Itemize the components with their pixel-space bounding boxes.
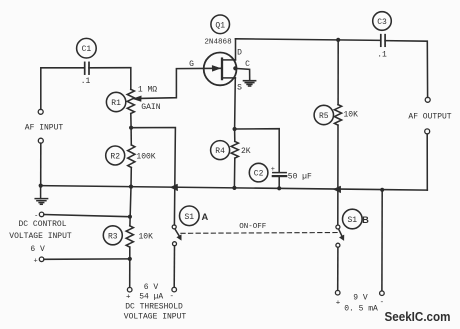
resistor R2 — [106, 145, 135, 168]
capacitor C2 — [249, 163, 286, 182]
terminal DC control plus — [39, 257, 44, 262]
svg-text:-: - — [34, 212, 38, 220]
wire node to R2 to bus — [130, 128, 132, 145]
svg-text:C3: C3 — [377, 18, 387, 27]
wire case to ground — [235, 68, 249, 80]
node S junction to R4 — [233, 127, 237, 131]
wire drain column up to top rail — [235, 39, 237, 60]
wire AF input bottom to bus — [40, 143, 42, 185]
terminal DC control minus — [39, 212, 44, 217]
ground (main) — [35, 186, 47, 205]
svg-text:C1: C1 — [82, 45, 92, 54]
wire C2 to bus — [278, 177, 280, 189]
terminal DC threshold minus — [172, 287, 177, 292]
wire node to S1A column — [131, 128, 175, 226]
resistor R4 — [211, 141, 239, 160]
node R4 bus — [232, 186, 236, 190]
junction arrow at bus S1B crossing — [334, 186, 341, 193]
wire bus to R3 — [130, 187, 131, 226]
wire node to C2 branch — [235, 129, 280, 172]
svg-text:+: + — [271, 166, 275, 174]
ground (case) — [244, 81, 256, 86]
node C case junction — [233, 66, 237, 70]
wire dashed on-off link — [181, 232, 337, 235]
svg-text:AF INPUT: AF INPUT — [25, 124, 64, 133]
svg-text:+: + — [126, 293, 131, 301]
terminal 9V plus — [335, 290, 340, 295]
wire C3 to AF output top — [385, 41, 428, 98]
R1 wiper arm — [133, 68, 221, 101]
svg-text:10K: 10K — [138, 232, 153, 241]
node R5 top — [336, 38, 340, 42]
svg-text:9 V: 9 V — [353, 293, 368, 302]
resistor R5 — [314, 105, 342, 126]
op wire gate arrowhead — [212, 66, 220, 72]
svg-text:10K: 10K — [343, 110, 358, 119]
svg-text:.1: .1 — [81, 77, 91, 86]
wire top rail to C3 — [236, 39, 381, 41]
svg-text:R2: R2 — [110, 153, 120, 162]
svg-text:R4: R4 — [215, 147, 225, 156]
wire node to R4 to bus — [234, 129, 236, 141]
node R3 bottom — [128, 257, 132, 261]
node R2 bus — [129, 185, 133, 189]
svg-text:SeekIC.com: SeekIC.com — [385, 309, 451, 324]
resistor R3 — [103, 226, 133, 247]
svg-text:DC THRESHOLD: DC THRESHOLD — [125, 303, 183, 312]
resistor R1 (1 M pot) — [106, 89, 134, 113]
svg-text:S1: S1 — [184, 213, 194, 222]
svg-text:54 µA: 54 µA — [139, 293, 163, 302]
wire R5 bottom through bus to switch — [337, 125, 339, 225]
svg-text:2N4868: 2N4868 — [204, 39, 232, 47]
svg-text:6 V: 6 V — [30, 245, 45, 254]
svg-text:VOLTAGE INPUT: VOLTAGE INPUT — [124, 313, 187, 322]
svg-text:S1: S1 — [347, 216, 357, 225]
svg-text:-: - — [380, 299, 385, 307]
svg-text:R5: R5 — [319, 112, 329, 121]
terminal AF input bottom — [38, 138, 43, 143]
wire C1 to R1 top corner — [89, 68, 131, 90]
svg-text:S: S — [237, 84, 242, 93]
wire DC control minus to R3 node — [44, 215, 130, 217]
wire S1B bottom to terminal — [337, 247, 339, 290]
transistor Q1 — [204, 15, 237, 85]
svg-text:+: + — [336, 300, 341, 308]
wire R3 to terminal — [129, 247, 131, 287]
wire AF output bottom to bus corner — [426, 134, 428, 190]
svg-text:1 MΩ: 1 MΩ — [138, 86, 157, 95]
svg-text:D: D — [237, 49, 242, 58]
terminal AF input top — [38, 109, 43, 114]
switch S1 A — [172, 206, 199, 246]
wire AF input top to C1 — [41, 68, 85, 110]
svg-text:VOLTAGE INPUT: VOLTAGE INPUT — [9, 232, 72, 241]
svg-text:R1: R1 — [111, 99, 121, 108]
resistor R5 column top wire — [337, 40, 339, 105]
terminal 9V minus — [380, 291, 385, 296]
bus ground rail — [41, 186, 428, 191]
node bus left end — [39, 184, 43, 188]
node R3 top — [128, 215, 132, 219]
svg-text:100K: 100K — [136, 152, 155, 161]
svg-text:6 V: 6 V — [144, 283, 159, 292]
svg-text:GAIN: GAIN — [141, 103, 160, 112]
svg-text:C: C — [245, 60, 250, 69]
svg-text:R3: R3 — [108, 232, 118, 241]
svg-text:AF OUTPUT: AF OUTPUT — [408, 113, 451, 122]
svg-text:2K: 2K — [241, 147, 251, 156]
wire R1 bottom to node — [130, 114, 132, 128]
node 9V minus bus — [380, 188, 384, 192]
terminal DC threshold plus — [127, 287, 132, 292]
wire source column down to node — [234, 78, 237, 129]
terminal AF output bottom — [425, 129, 430, 134]
node C2 bus — [277, 186, 281, 190]
svg-text:A: A — [202, 212, 209, 222]
node R1 R2 junction — [129, 126, 133, 130]
junction arrow at bus S1A crossing — [171, 184, 178, 191]
capacitor C3 — [373, 12, 392, 47]
svg-text:ON-OFF: ON-OFF — [239, 223, 266, 231]
wire 9V minus to bus — [381, 190, 383, 291]
svg-text:DC CONTROL: DC CONTROL — [18, 220, 66, 229]
svg-text:G: G — [189, 60, 194, 69]
svg-text:-: - — [170, 293, 175, 301]
capacitor C1 — [77, 38, 97, 74]
switch S1 B — [336, 209, 362, 247]
svg-text:Q1: Q1 — [215, 21, 225, 30]
terminal AF output top — [425, 97, 430, 102]
wire S1A bottom to terminal — [173, 246, 175, 287]
svg-text:C2: C2 — [254, 170, 264, 179]
svg-text:B: B — [362, 215, 369, 225]
svg-text:+: + — [33, 257, 37, 265]
svg-text:.1: .1 — [377, 51, 387, 60]
svg-text:0. 5 mA: 0. 5 mA — [344, 305, 378, 314]
wire DC control plus to R3 node — [44, 258, 130, 260]
svg-text:50 µF: 50 µF — [288, 173, 312, 182]
